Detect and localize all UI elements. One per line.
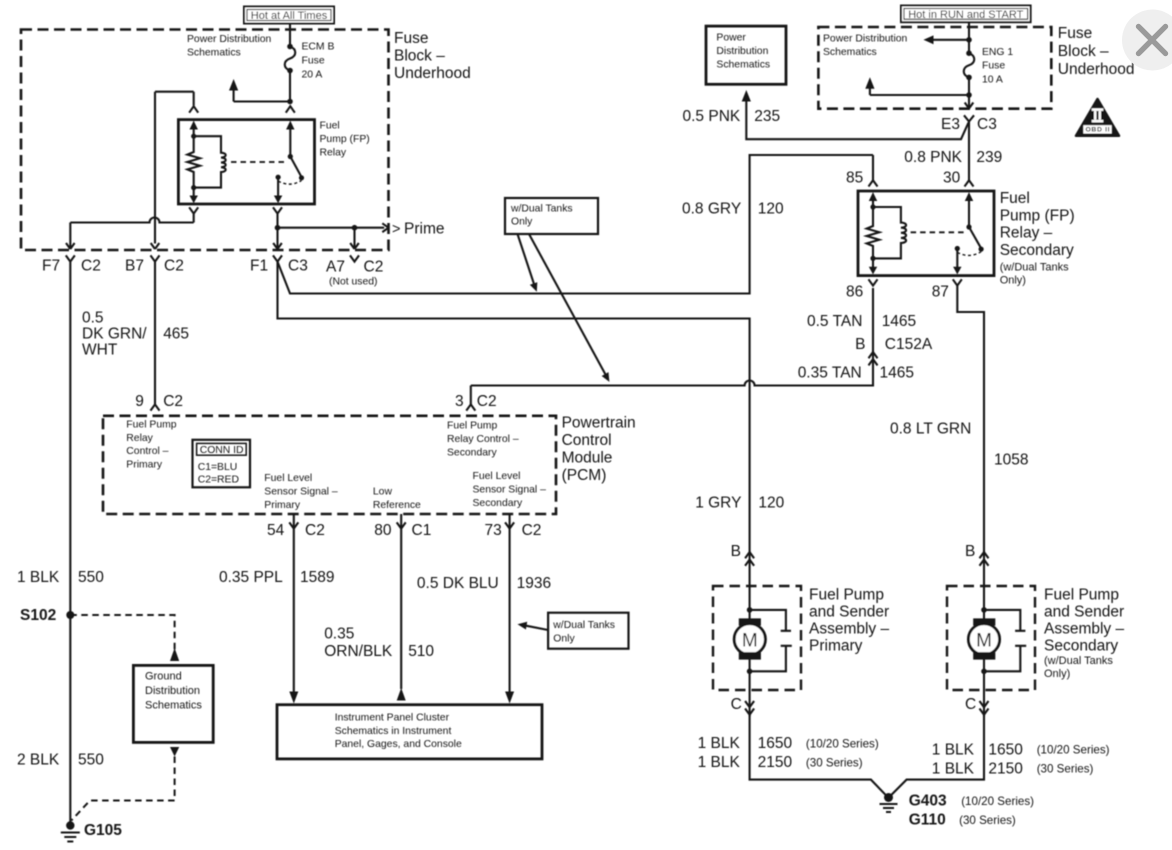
value label ECM B Fuse 20 A xyxy=(302,42,335,81)
relay secondary coil element xyxy=(873,207,906,258)
svg-text:C2=RED: C2=RED xyxy=(198,475,239,486)
wire PCM pin 73 through connector xyxy=(505,514,514,692)
connector chevron relay secondary pin 85 xyxy=(869,155,878,187)
svg-text:0.8 PNK: 0.8 PNK xyxy=(904,149,962,166)
relay secondary switch blade xyxy=(969,227,981,248)
pump assembly label secondary xyxy=(1044,587,1124,680)
svg-text:Relay Control –: Relay Control – xyxy=(447,434,519,445)
wire B7 open arrowhead at block edge xyxy=(151,243,160,249)
wire F7 drop with open arrowhead at block edge xyxy=(66,223,75,250)
svg-text:1 BLK: 1 BLK xyxy=(698,735,741,752)
svg-text:Panel, Gages, and Console: Panel, Gages, and Console xyxy=(335,739,462,750)
in-line connector C152A double chevron xyxy=(869,352,878,365)
svg-text:1 GRY: 1 GRY xyxy=(695,494,741,511)
svg-text:(10/20 Series): (10/20 Series) xyxy=(806,737,879,750)
pump assembly label primary xyxy=(809,587,889,655)
relay label Fuel Pump (FP) Relay xyxy=(320,121,370,159)
svg-text:F7: F7 xyxy=(42,258,60,275)
in-line connector C (secondary pump) xyxy=(980,701,989,715)
wire label 1 BLK 2150 (30 Series) primary xyxy=(698,754,863,771)
svg-text:ECM B: ECM B xyxy=(302,42,335,53)
svg-text:0.35: 0.35 xyxy=(324,626,354,643)
svg-text:510: 510 xyxy=(408,643,434,660)
svg-text:73: 73 xyxy=(485,522,502,539)
svg-text:A7: A7 xyxy=(326,259,345,276)
svg-text:B7: B7 xyxy=(125,258,144,275)
fuse block underhood (left) dashed box xyxy=(21,30,389,251)
fuel pump primary dashed box xyxy=(713,586,801,690)
svg-text:Power Distribution: Power Distribution xyxy=(823,34,908,45)
svg-text:E3: E3 xyxy=(941,116,960,133)
wire pump secondary to connector C xyxy=(983,671,985,716)
wire label 0.8 PNK 239 xyxy=(904,149,1002,166)
svg-text:Fuel Pump: Fuel Pump xyxy=(126,420,176,431)
relay U1 Fuel Pump (FP) Relay box xyxy=(178,120,314,204)
svg-text:Powertrain: Powertrain xyxy=(562,414,636,431)
relay coil element xyxy=(194,136,226,187)
relay secondary travel dashed arc xyxy=(957,252,981,256)
svg-text:0.5 TAN: 0.5 TAN xyxy=(807,313,862,330)
svg-text:C2: C2 xyxy=(364,259,384,276)
wire F1 to fuel pump primary (1 GRY 120) xyxy=(278,262,750,610)
svg-text:w/Dual Tanks: w/Dual Tanks xyxy=(510,203,573,214)
relay U2 Fuel Pump (FP) Relay - Secondary box xyxy=(858,191,994,276)
svg-text:1936: 1936 xyxy=(517,575,551,592)
svg-text:Fuel Pump: Fuel Pump xyxy=(1044,587,1119,604)
note box Ground Distribution Schematics xyxy=(133,665,213,742)
svg-text:Primary: Primary xyxy=(809,638,863,655)
in-line connector B (secondary pump) xyxy=(980,552,989,566)
relay switch pivot dot xyxy=(288,154,293,159)
relay secondary coil top dot xyxy=(870,204,875,209)
svg-text:2 BLK: 2 BLK xyxy=(17,752,60,769)
wire branch with left arrow to power distribution xyxy=(924,35,972,44)
relay secondary switch pivot dot xyxy=(966,224,971,229)
wire S102 to G105 xyxy=(69,615,71,823)
wire A7 stub dot xyxy=(352,225,358,231)
svg-text:Schematics: Schematics xyxy=(187,48,241,59)
svg-text:OBD II: OBD II xyxy=(1086,127,1110,134)
svg-text:Fuel Pump: Fuel Pump xyxy=(809,587,884,604)
arrow up (to power distribution schematics) xyxy=(229,79,238,91)
svg-text:C3: C3 xyxy=(977,116,997,133)
svg-text:Pump (FP): Pump (FP) xyxy=(1000,207,1075,224)
svg-text:Fuel Level: Fuel Level xyxy=(264,473,312,484)
pin function label Low Reference xyxy=(373,487,421,511)
wire F1 to relay secondary pin 85 (0.8 GRY 120) xyxy=(278,155,874,294)
note Power Distribution Schematics (left fuse block) xyxy=(187,34,272,59)
svg-text:G105: G105 xyxy=(84,822,122,839)
svg-text:Prime: Prime xyxy=(404,220,444,237)
svg-text:and Sender: and Sender xyxy=(1044,604,1124,621)
wire relay coil feed from B7 riser xyxy=(155,92,194,244)
relay coil pin arrow up xyxy=(190,121,198,137)
connector A7 chevron (not used) xyxy=(350,255,359,261)
wire PCM pin 3 to C152A (0.35 TAN 1465) with hop over 1 GRY wire xyxy=(471,288,873,386)
svg-text:(PCM): (PCM) xyxy=(562,467,607,484)
svg-text:(30 Series): (30 Series) xyxy=(1037,763,1094,776)
svg-text:0.5 DK BLU: 0.5 DK BLU xyxy=(417,575,499,592)
svg-text:Schematics: Schematics xyxy=(716,60,770,71)
relay coil bottom node dot xyxy=(191,185,196,190)
svg-text:C2: C2 xyxy=(522,522,542,539)
relay secondary switch common arrow up xyxy=(965,192,973,226)
connector chevron below relay output pin xyxy=(273,207,282,227)
svg-text:Ground: Ground xyxy=(145,671,182,683)
svg-text:Instrument Panel Cluster: Instrument Panel Cluster xyxy=(335,713,450,724)
svg-text:Secondary: Secondary xyxy=(1044,638,1118,655)
svg-text:Control: Control xyxy=(562,432,612,449)
relay output pin arrow down xyxy=(274,177,282,203)
wire pump primary to connector C xyxy=(749,671,751,716)
power tag Hot in RUN and START xyxy=(901,6,1031,23)
fuse block underhood (right) dashed box xyxy=(818,27,1051,109)
svg-text:Fuse: Fuse xyxy=(1058,25,1092,42)
fuel pump secondary dashed box xyxy=(947,586,1035,690)
svg-text:(30 Series): (30 Series) xyxy=(806,756,863,769)
wire label 0.35 PPL 1589 xyxy=(219,569,334,586)
svg-text:Fuse: Fuse xyxy=(982,61,1005,72)
svg-text:465: 465 xyxy=(163,325,189,342)
relay switch common pin arrow up xyxy=(286,121,294,156)
relay secondary output pin arrow down xyxy=(953,249,961,275)
svg-text:Block –: Block – xyxy=(394,47,445,64)
svg-text:550: 550 xyxy=(78,569,104,586)
UI close button xyxy=(1122,10,1172,71)
svg-text:54: 54 xyxy=(267,522,285,539)
svg-text:G110: G110 xyxy=(909,812,946,829)
svg-text:B: B xyxy=(731,543,741,560)
wire label 0.5 TAN 1465 xyxy=(807,313,916,330)
arrow down into instrument panel (pin 73 wire) xyxy=(505,692,514,704)
wire label 1 GRY 120 xyxy=(695,494,784,511)
svg-text:S102: S102 xyxy=(20,607,56,624)
svg-text:C1=BLU: C1=BLU xyxy=(198,462,238,473)
svg-text:2150: 2150 xyxy=(758,754,793,771)
connector F1 pigtail xyxy=(273,255,282,261)
connector label B C152A xyxy=(855,336,933,353)
svg-text:Schematics: Schematics xyxy=(145,700,202,712)
svg-text:C1: C1 xyxy=(412,522,432,539)
wire label 0.5 DK BLU 1936 xyxy=(417,575,551,592)
svg-text:Assembly –: Assembly – xyxy=(1044,621,1124,638)
wire label 1 BLK 550 xyxy=(17,569,104,586)
connector chevron below relay coil pin xyxy=(189,207,198,222)
pin label F1 C3 xyxy=(250,258,308,275)
arrow down out of ground distribution note xyxy=(170,747,179,757)
svg-text:Only): Only) xyxy=(1000,274,1026,286)
svg-text:ENG 1: ENG 1 xyxy=(982,47,1013,58)
svg-text:WHT: WHT xyxy=(82,341,118,358)
svg-text:Reference: Reference xyxy=(373,500,421,511)
dashed reference wire ground box to G105 xyxy=(71,757,174,821)
svg-text:Fuse: Fuse xyxy=(394,30,428,47)
connector chevron into relay pin (coil side) xyxy=(189,92,198,113)
svg-text:10 A: 10 A xyxy=(982,75,1003,86)
value label ENG 1 Fuse 10 A xyxy=(982,47,1013,86)
svg-text:C2: C2 xyxy=(477,393,497,410)
pin label A7 C2 (Not used) xyxy=(326,259,383,288)
svg-text:1465: 1465 xyxy=(880,365,914,382)
svg-text:Schematics: Schematics xyxy=(823,47,877,58)
svg-text:M: M xyxy=(742,630,758,651)
wire label 1 BLK 1650 (10/20 Series) secondary xyxy=(932,742,1110,759)
svg-text:Control –: Control – xyxy=(126,446,168,457)
junction dot below fuse xyxy=(287,99,293,105)
wire branch to up arrow xyxy=(865,77,969,95)
svg-text:1 BLK: 1 BLK xyxy=(17,569,60,586)
CONN ID legend box xyxy=(193,440,251,488)
svg-text:Secondary: Secondary xyxy=(1000,242,1074,259)
wire exit of fuse block with open arrowhead xyxy=(965,95,974,109)
relay secondary label xyxy=(1000,190,1075,286)
pin label 3 C2 xyxy=(455,393,497,410)
relay secondary actuation dashed link xyxy=(911,231,965,233)
svg-text:9: 9 xyxy=(135,393,144,410)
svg-text:Hot at All Times: Hot at All Times xyxy=(251,10,328,22)
arrow from w/Dual Tanks note to 0.8 GRY wire xyxy=(518,234,538,292)
svg-text:w/Dual Tanks: w/Dual Tanks xyxy=(552,620,615,631)
ground G403/G110 xyxy=(880,793,898,812)
pin function label Fuel Pump Relay Control - Secondary xyxy=(447,421,519,459)
node S102 dot xyxy=(66,611,74,619)
svg-text:C: C xyxy=(731,696,742,713)
relay coil top node dot xyxy=(191,134,196,139)
wire label 0.5 DK GRN/WHT 465 xyxy=(82,309,189,358)
svg-text:M: M xyxy=(976,630,992,651)
svg-text:CONN ID: CONN ID xyxy=(200,445,244,456)
svg-text:C3: C3 xyxy=(288,258,308,275)
pin label B7 C2 xyxy=(125,258,184,275)
svg-text:Fuel: Fuel xyxy=(320,121,340,132)
wire label 0.5 PNK 235 xyxy=(683,108,781,125)
wire label 2 BLK 550 xyxy=(17,752,104,769)
connector chevron PCM pin 3 xyxy=(466,404,475,410)
relay secondary coil bottom dot xyxy=(870,256,875,261)
svg-text:Fuel Level: Fuel Level xyxy=(473,471,521,482)
svg-text:1 BLK: 1 BLK xyxy=(932,742,975,759)
pin label 80 C1 xyxy=(374,522,431,539)
wire label 0.35 TAN 1465 xyxy=(798,365,914,382)
relay secondary coil pin arrow down xyxy=(869,258,877,274)
wire prime feed horizontal xyxy=(278,223,389,232)
svg-text:30: 30 xyxy=(943,169,961,186)
connector chevron relay secondary pin 30 xyxy=(965,180,974,186)
wire primary pump ground run xyxy=(750,715,887,796)
wire PCM pin 54 through connector xyxy=(289,514,298,692)
arrow up from instrument panel (low reference) xyxy=(397,688,406,701)
svg-text:Sensor Signal –: Sensor Signal – xyxy=(473,485,547,496)
svg-text:Distribution: Distribution xyxy=(716,46,768,57)
svg-text:85: 85 xyxy=(846,169,863,186)
svg-text:Distribution: Distribution xyxy=(145,685,200,697)
motor M2 fuel pump secondary xyxy=(968,607,999,674)
connector F7 pigtail xyxy=(66,255,75,615)
svg-text:1 BLK: 1 BLK xyxy=(698,754,741,771)
svg-text:87: 87 xyxy=(932,283,949,300)
OBD II emissions symbol xyxy=(1076,99,1119,136)
relay switch travel dashed arc xyxy=(278,181,301,185)
wire F1 drop with open arrowhead xyxy=(273,228,282,249)
note Power Distribution Schematics (right fuse block) xyxy=(823,34,908,59)
arrow from w/Dual Tanks note to 0.35 TAN wire xyxy=(529,234,609,382)
wire A7 drop with open arrowhead xyxy=(350,228,359,249)
svg-text:(10/20 Series): (10/20 Series) xyxy=(1037,744,1110,757)
svg-text:Relay: Relay xyxy=(320,148,347,159)
arrow up into power distribution schematics box xyxy=(742,90,751,102)
wire pin 87 to fuel pump secondary (0.8 LT GRN 1058) xyxy=(957,286,984,610)
svg-text:1589: 1589 xyxy=(300,569,334,586)
wire label 0.35 ORN/BLK 510 xyxy=(324,626,434,660)
pin label 73 C2 xyxy=(485,522,542,539)
PCM module dashed box xyxy=(103,416,556,514)
svg-text:F1: F1 xyxy=(250,258,268,275)
svg-text:0.5 PNK: 0.5 PNK xyxy=(683,108,741,125)
svg-text:0.8 LT GRN: 0.8 LT GRN xyxy=(890,420,971,437)
connector chevron below pin 87 xyxy=(953,279,962,285)
ground label G403 (10/20 Series) xyxy=(909,793,1034,810)
svg-text:120: 120 xyxy=(758,494,784,511)
svg-text:Relay –: Relay – xyxy=(1000,225,1053,242)
svg-text:G403: G403 xyxy=(909,793,947,810)
svg-text:Secondary: Secondary xyxy=(447,448,497,459)
svg-text:2150: 2150 xyxy=(988,760,1023,777)
svg-text:Primary: Primary xyxy=(126,459,163,470)
junction dot below ENG1 fuse xyxy=(966,92,972,98)
svg-text:0.8 GRY: 0.8 GRY xyxy=(682,200,741,217)
svg-text:C152A: C152A xyxy=(885,336,933,353)
svg-text:(Not used): (Not used) xyxy=(329,276,378,287)
wire label 1 BLK 2150 (30 Series) secondary xyxy=(932,760,1094,777)
pin label E3 C3 xyxy=(941,116,997,133)
connector chevron PCM pin 9 xyxy=(151,404,160,410)
svg-text:(w/Dual Tanks: (w/Dual Tanks xyxy=(1044,655,1113,667)
pin label 9 C2 xyxy=(135,393,183,410)
wire branch to power distribution schematics box (0.5 PNK 235) xyxy=(746,101,968,139)
svg-text:Schematics in Instrument: Schematics in Instrument xyxy=(335,726,452,737)
svg-text:0.35 PPL: 0.35 PPL xyxy=(219,569,283,586)
svg-text:(w/Dual Tanks: (w/Dual Tanks xyxy=(1000,261,1069,273)
svg-text:C2: C2 xyxy=(163,393,183,410)
svg-text:Only): Only) xyxy=(1044,668,1070,680)
wire branch to power distribution arrow xyxy=(234,90,290,102)
svg-text:1650: 1650 xyxy=(758,735,793,752)
svg-text:Power Distribution: Power Distribution xyxy=(187,34,272,45)
svg-text:3: 3 xyxy=(455,393,464,410)
svg-text:(30 Series): (30 Series) xyxy=(959,814,1016,827)
label > Prime xyxy=(392,220,444,237)
wire label 0.8 LT GRN 1058 xyxy=(890,420,1028,468)
relay output contact dot xyxy=(276,175,281,180)
svg-text:550: 550 xyxy=(78,752,104,769)
svg-text:20 A: 20 A xyxy=(302,70,323,81)
fuse F1 ECM B 20A xyxy=(285,44,296,102)
svg-text:DK GRN/: DK GRN/ xyxy=(82,325,147,342)
svg-text:and Sender: and Sender xyxy=(809,604,889,621)
svg-text:235: 235 xyxy=(754,108,780,125)
relay secondary resistor element xyxy=(867,207,880,258)
in-line connector B (primary pump) xyxy=(745,552,754,566)
svg-text:C2: C2 xyxy=(81,258,101,275)
svg-text:Assembly –: Assembly – xyxy=(809,621,889,638)
wire label 1 BLK 1650 (10/20 Series) primary xyxy=(698,735,879,752)
svg-text:1650: 1650 xyxy=(988,742,1023,759)
motor M1 fuel pump primary xyxy=(734,607,765,674)
svg-text:1 BLK: 1 BLK xyxy=(932,760,975,777)
svg-text:Pump (FP): Pump (FP) xyxy=(320,134,370,145)
svg-text:Hot in RUN and START: Hot in RUN and START xyxy=(908,9,1023,21)
wire secondary pump ground run xyxy=(891,715,985,796)
wire node F1/prime junction dot xyxy=(275,225,281,231)
fuel level sender secondary xyxy=(984,610,1026,671)
svg-text:Primary: Primary xyxy=(264,500,301,511)
svg-text:B: B xyxy=(855,336,865,353)
svg-text:Relay: Relay xyxy=(126,433,153,444)
wire PCM pin 3 riser to secondary relay net xyxy=(470,386,472,405)
svg-text:Underhood: Underhood xyxy=(1058,61,1135,78)
relay switch blade end dot xyxy=(299,175,304,180)
note box Instrument Panel Cluster xyxy=(277,705,542,759)
svg-text:Fuel Pump: Fuel Pump xyxy=(447,421,497,432)
connector E3/C3 pigtail xyxy=(964,115,974,180)
svg-text:239: 239 xyxy=(976,149,1002,166)
svg-text:Fuel: Fuel xyxy=(1000,190,1030,207)
relay secondary coil pin arrow up xyxy=(869,192,877,207)
svg-text:Sensor Signal –: Sensor Signal – xyxy=(264,487,338,498)
connector chevron into relay pin (switch side) xyxy=(286,106,295,113)
arrow from w/Dual Tanks note to DK BLU wire xyxy=(518,622,549,630)
svg-text:C2: C2 xyxy=(305,522,325,539)
wire from Hot at All Times to fuse xyxy=(289,23,291,47)
svg-text:Fuse: Fuse xyxy=(302,56,325,67)
svg-text:C2: C2 xyxy=(164,258,184,275)
module label Powertrain Control Module (PCM) xyxy=(562,414,636,484)
pin label 54 C2 xyxy=(267,522,325,539)
pin function label Fuel Level Sensor Signal - Secondary xyxy=(473,471,547,509)
svg-text:Secondary: Secondary xyxy=(473,498,523,509)
ground label G110 (30 Series) xyxy=(909,812,1016,829)
label Fuse Block - Underhood (left) xyxy=(394,30,471,82)
pin function label Fuel Pump Relay Control - Primary xyxy=(126,420,176,471)
wire relay coil to F7 with hop over B7 riser xyxy=(70,218,193,223)
arrow up into ground distribution note xyxy=(170,648,179,661)
svg-text:86: 86 xyxy=(846,283,863,300)
svg-text:80: 80 xyxy=(374,522,392,539)
svg-text:Block –: Block – xyxy=(1058,43,1109,60)
note box Power Distribution Schematics xyxy=(706,26,786,84)
svg-text:Low: Low xyxy=(373,487,393,498)
fuse ENG 1 10A xyxy=(964,50,975,95)
in-line connector C (primary pump) xyxy=(745,701,754,715)
wire from Hot in RUN tag down xyxy=(968,22,970,53)
power tag Hot at All Times xyxy=(244,7,334,24)
svg-text:0.5: 0.5 xyxy=(82,309,104,326)
relay secondary blade end dot xyxy=(979,247,984,252)
svg-text:>: > xyxy=(392,221,400,237)
svg-text:C: C xyxy=(965,696,976,713)
svg-text:Module: Module xyxy=(562,449,613,466)
label Fuse Block - Underhood (right) xyxy=(1058,25,1135,78)
svg-text:Only: Only xyxy=(511,217,533,228)
pin label F7 C2 xyxy=(42,258,101,275)
svg-text:Underhood: Underhood xyxy=(394,65,471,82)
svg-text:ORN/BLK: ORN/BLK xyxy=(324,643,393,660)
relay coil pin arrow down to box edge xyxy=(190,188,198,204)
svg-text:Only: Only xyxy=(553,633,575,644)
svg-text:1058: 1058 xyxy=(994,451,1028,468)
arrow down into instrument panel (pin 54 wire) xyxy=(289,692,298,704)
wire label 0.8 GRY 120 xyxy=(682,200,784,217)
